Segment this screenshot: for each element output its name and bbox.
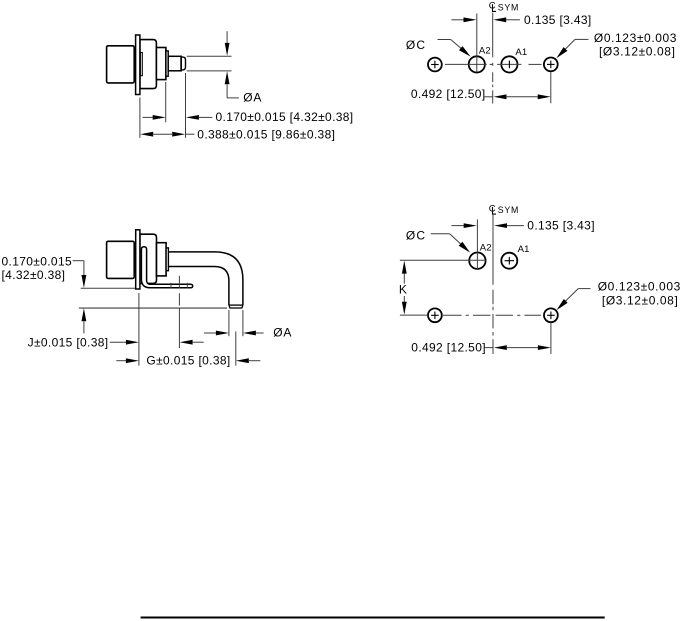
- top-left view: pin tip cap: [181, 57, 186, 70]
- extension line: step face: [165, 82, 167, 122]
- dimension 0.388 row: double arrow: [140, 132, 153, 137]
- top-left view: insulator washer: [166, 51, 168, 76]
- dimension 0.170 row: left arrow: [143, 116, 154, 118]
- leader diameter 0.123 (top pattern): [575, 38, 589, 40]
- extension line: pin bottom edge: [187, 70, 232, 72]
- extension line at bracket bottom: [81, 287, 135, 289]
- svg-text:0.388±0.015 [9.86±0.38]: 0.388±0.015 [9.86±0.38]: [197, 128, 335, 142]
- extension line: flange face (bottom-left): [138, 293, 140, 366]
- svg-text:0.492 [12.50]: 0.492 [12.50]: [411, 87, 486, 101]
- footer rule: [141, 617, 605, 619]
- svg-text:ØA: ØA: [273, 326, 292, 340]
- extension line: pin top edge: [187, 55, 232, 57]
- dimension 0.135 (top pattern): [451, 19, 465, 21]
- dimension K vertical line with arrows: [402, 261, 407, 274]
- hole lower-right mounting (bottom pattern): [544, 308, 558, 322]
- horizontal centerline dash through hole A1: [497, 63, 521, 65]
- svg-text:ØA: ØA: [243, 91, 262, 105]
- svg-text:0.135 [3.43]: 0.135 [3.43]: [524, 13, 592, 27]
- bracket foot hole edge ticks: [170, 283, 172, 289]
- extension line lower-right hole (bottom pattern): [550, 323, 552, 355]
- hole A2 (top pattern): [469, 56, 485, 72]
- svg-text:G±0.015 [0.38]: G±0.015 [0.38]: [146, 354, 230, 368]
- top-left view: step cylinder: [156, 48, 166, 80]
- svg-text:[4.32±0.38]: [4.32±0.38]: [2, 268, 66, 282]
- cross of hole A1 (bottom pattern): [505, 260, 514, 262]
- horizontal centerline dash between left hole and A2, through A2: [445, 63, 487, 65]
- dimension G row: [116, 360, 126, 362]
- vertical extension line through hole A2 from 0.135 dimension: [476, 14, 478, 72]
- extension line: pin centerline: [235, 331, 237, 365]
- svg-text:[Ø3.12±0.08]: [Ø3.12±0.08]: [602, 294, 679, 308]
- svg-text:0.170±0.015 [4.32±0.38]: 0.170±0.015 [4.32±0.38]: [216, 110, 354, 124]
- dimension 0.135 (bottom pattern): [452, 225, 466, 227]
- svg-text:0.492 [12.50]: 0.492 [12.50]: [411, 340, 486, 354]
- dimension diameter A: lower arrow and elbow leader: [225, 71, 230, 84]
- svg-text:SYM: SYM: [498, 2, 519, 12]
- svg-text:ØC: ØC: [406, 228, 426, 242]
- svg-text:A2: A2: [479, 46, 491, 57]
- svg-text:Ø0.123±0.003: Ø0.123±0.003: [598, 280, 680, 294]
- horizontal centerline dash between A1 and right hole: [529, 63, 542, 65]
- cross of lower-right hole: [547, 314, 555, 316]
- svg-text:A1: A1: [518, 244, 530, 255]
- svg-text:0.135 [3.43]: 0.135 [3.43]: [527, 219, 595, 233]
- svg-text:A2: A2: [480, 243, 492, 254]
- hole left mounting (top pattern): [428, 58, 442, 72]
- bottom-left view: pin tip cap: [229, 304, 243, 306]
- hole A1 (top pattern): [501, 56, 517, 72]
- svg-text:0.170±0.015: 0.170±0.015: [2, 254, 73, 268]
- svg-text:A1: A1: [515, 47, 527, 58]
- bottom-left view: connector body (rear can): [107, 241, 135, 278]
- top-left view: connector body (rear can): [107, 46, 135, 83]
- dimension diameter A row (bottom-left): [204, 332, 217, 334]
- leader diameter 0.123 (bottom pattern): [578, 288, 590, 290]
- hole A1 (bottom pattern): [501, 253, 517, 269]
- hole right mounting (top pattern): [544, 58, 558, 72]
- cross of left mounting hole: [431, 64, 439, 66]
- dimension 0.170 row: right arrow: [186, 115, 199, 120]
- extension line right mounting hole (top pattern): [550, 72, 552, 103]
- cross of right mounting hole: [547, 63, 555, 65]
- dimension K: extension line at lower hole row: [400, 314, 428, 316]
- top-left view: round front body: [140, 40, 157, 89]
- svg-text:J±0.015 [0.38]: J±0.015 [0.38]: [28, 335, 109, 349]
- cross of hole A2 with K extension line: [400, 259, 486, 261]
- bottom-left view: mounting flange: [136, 230, 140, 289]
- svg-text:[Ø3.12±0.08]: [Ø3.12±0.08]: [599, 45, 676, 59]
- svg-text:SYM: SYM: [498, 205, 519, 215]
- horizontal centerline dashes of lower hole row: [443, 314, 462, 316]
- top-left view: mounting flange: [136, 35, 140, 95]
- bottom-left view: insulator washer: [166, 248, 168, 271]
- centerline dot at symmetry line: [490, 63, 493, 65]
- bottom-left view: step cylinder: [157, 243, 167, 276]
- extension line: pin right edge: [242, 310, 244, 336]
- extension line: flange mounting face: [139, 98, 141, 138]
- svg-text:K: K: [399, 283, 407, 297]
- top-left view: inner step bar: [140, 53, 142, 76]
- dashed centerline of bracket hole A2: [178, 276, 180, 288]
- dimension diameter A: upper arrow: [226, 31, 228, 43]
- vertical cross arm of hole A1: [508, 61, 510, 69]
- vertical centerline (top pattern): [492, 13, 494, 58]
- extension line: pin tip: [185, 73, 187, 138]
- extension line: pin left edge: [228, 310, 230, 336]
- cross of lower-left hole: [431, 314, 439, 316]
- hole A2 (bottom pattern): [469, 253, 485, 269]
- dimension 0.170 leader and arrows (bottom-left): [73, 260, 84, 262]
- hole lower-left mounting (bottom pattern): [428, 308, 442, 322]
- top-left view: center pin: [168, 56, 181, 71]
- bottom-left view: bent pin outline: [168, 252, 243, 305]
- svg-text:ØC: ØC: [406, 38, 426, 52]
- bottom-left view: round front body: [140, 234, 157, 283]
- vertical centerline (bottom pattern): [492, 215, 494, 285]
- extension line at pin tip level (ground line): [79, 307, 227, 309]
- bottom-left view: right-angle bracket: [141, 247, 192, 288]
- svg-text:Ø0.123±0.003: Ø0.123±0.003: [594, 31, 677, 45]
